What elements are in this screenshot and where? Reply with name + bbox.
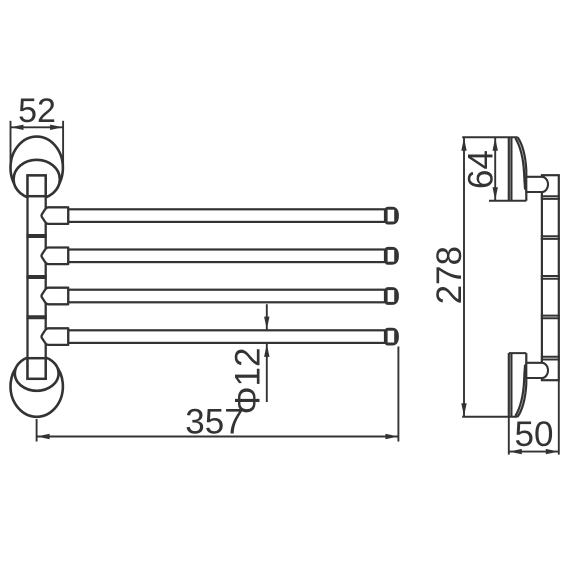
- side column joint line 3: [541, 276, 560, 279]
- side view bottom flange dome: [518, 353, 527, 417]
- arm 2 bar: [68, 250, 385, 263]
- arm 4 hinge knuckle: [42, 328, 69, 345]
- side view top flange dome: [518, 137, 527, 200]
- stem column front: [28, 175, 46, 378]
- dimension 52 extension line right: [62, 121, 64, 166]
- dimension 52 line: [11, 126, 64, 128]
- arm 3 end cap: [385, 287, 399, 305]
- dimension 52 extension line left: [10, 121, 12, 166]
- side view bottom flange dome inner curve: [515, 365, 525, 416]
- dimension phi12 upper line: [266, 304, 268, 329]
- dimension 50 extension line right: [558, 381, 560, 455]
- stem top square: [28, 175, 46, 196]
- arm 4 bar: [68, 330, 385, 343]
- top flange outer ellipse: [11, 137, 63, 199]
- bottom flange inner ellipse: [15, 356, 59, 391]
- arm 1 hinge knuckle: [42, 207, 69, 224]
- dimension 278 arrow up: [461, 138, 466, 151]
- arm 3 hinge knuckle: [42, 288, 69, 305]
- stem bottom square: [28, 358, 46, 379]
- side column joint line 2: [541, 236, 560, 239]
- arm 1 end cap: [385, 207, 399, 225]
- arm 4 end cap: [385, 328, 399, 346]
- svg-text:52: 52: [18, 92, 56, 130]
- dimension 357 line: [37, 436, 399, 438]
- dimension 52 arrow right: [50, 125, 63, 130]
- side view top flange plate: [462, 137, 526, 200]
- stem joint line 3: [26, 316, 46, 318]
- stem joint line 2: [26, 276, 46, 278]
- svg-text:64: 64: [462, 150, 501, 189]
- dimension 52 arrow left: [11, 125, 24, 130]
- arm 2 hinge knuckle: [42, 248, 69, 265]
- side column joint line 4: [541, 316, 560, 319]
- top flange inner ellipse: [14, 160, 60, 199]
- dimension 50 line: [509, 451, 559, 453]
- dimension 357 extension line left: [36, 419, 38, 442]
- dimension 278 line: [463, 137, 465, 417]
- svg-text:357: 357: [185, 403, 243, 442]
- dimension 278 arrow down: [461, 403, 466, 416]
- dimension phi12 lower arrow: [264, 344, 269, 357]
- side view bottom hub: [526, 363, 548, 378]
- dimension 64 line: [494, 137, 496, 200]
- dimension 357 extension line right: [397, 347, 399, 442]
- dimension 50 arrow left: [509, 449, 522, 454]
- stem joint line 1: [26, 235, 46, 237]
- side column joint line 5: [541, 357, 560, 360]
- dimension 64 arrow up: [493, 138, 498, 151]
- dimension phi12 upper arrow: [264, 317, 269, 330]
- arm 3 bar: [68, 290, 385, 303]
- dimension 50 extension line left: [508, 417, 510, 455]
- side view bottom flange plate: [462, 353, 526, 417]
- bottom flange outer ellipse: [11, 356, 63, 417]
- side view swivel column: [542, 175, 559, 380]
- svg-text:278: 278: [430, 246, 469, 304]
- dimension 357 arrow left: [37, 434, 50, 439]
- dimension 64 arrow down: [493, 187, 498, 200]
- side view top hub: [526, 177, 548, 192]
- svg-text:50: 50: [515, 415, 554, 454]
- dimension phi12 lower line: [266, 344, 268, 402]
- dimension 357 arrow right: [385, 434, 398, 439]
- dimension 50 arrow right: [546, 449, 559, 454]
- arm 1 bar: [68, 209, 385, 222]
- arm 2 end cap: [385, 247, 399, 265]
- side column joint line 1: [541, 196, 560, 199]
- side view top flange dome inner curve: [515, 138, 525, 189]
